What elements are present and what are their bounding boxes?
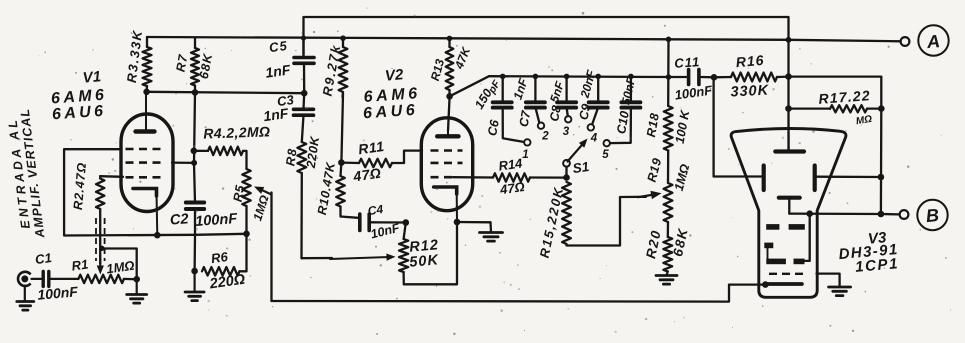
wire C6 top lead xyxy=(502,76,504,100)
wire V1 suppressor to R2 top xyxy=(100,175,123,178)
wire C10 top lead xyxy=(630,77,632,101)
wire C9 top lead xyxy=(597,76,599,100)
resistor R7 xyxy=(191,48,199,86)
wire screen grid line xyxy=(172,161,194,164)
resistor R17 xyxy=(830,105,867,112)
wire V1 grid loop xyxy=(64,149,246,235)
connector input jack xyxy=(18,272,31,286)
svg-text:2: 2 xyxy=(541,131,549,143)
ground R20 xyxy=(656,276,677,285)
wire R1 ground stem xyxy=(136,279,138,294)
wire gun electrode lead xyxy=(805,214,810,261)
node right plate to B riser xyxy=(878,174,885,181)
resistor R13 xyxy=(446,47,454,90)
CRT right deflection plate xyxy=(813,166,817,191)
wire jack stem xyxy=(24,286,26,301)
wire right riser to B xyxy=(880,109,883,214)
svg-text:R4.2,2MΩ: R4.2,2MΩ xyxy=(203,123,271,141)
ground R1 xyxy=(127,295,147,304)
wire rail to R18 xyxy=(667,39,670,106)
wire top outer rail xyxy=(304,17,789,55)
wire C7 top lead xyxy=(534,76,536,100)
wire C4 to R12 top xyxy=(371,221,406,223)
wire R5 wiper riser to bottom rail xyxy=(270,193,272,302)
potentiometer R12 xyxy=(399,239,408,272)
wire R18 to R19 xyxy=(667,151,670,184)
resistor R20 xyxy=(663,237,672,272)
wire cathode to ground xyxy=(457,221,491,224)
wire CRT neck dashes to ground xyxy=(817,274,840,287)
wire C3 top lead xyxy=(302,93,305,109)
CRT grid dashes in neck xyxy=(769,273,805,275)
node rail at R18 column xyxy=(666,37,672,43)
wire R15 bottom to R19 wiper xyxy=(567,197,647,246)
wire vertical through R16-R17 nodes xyxy=(787,40,789,151)
svg-text:B: B xyxy=(925,205,940,226)
node cap rail at C6 xyxy=(500,74,506,80)
svg-text:V1: V1 xyxy=(82,68,102,87)
wire B line xyxy=(789,212,899,215)
svg-text:C4: C4 xyxy=(367,202,384,218)
node R6 left xyxy=(191,268,198,275)
tube V1 plate xyxy=(136,129,155,133)
node R5 bottom xyxy=(243,231,250,238)
wire C2 to cathode line xyxy=(194,209,196,235)
wire R7 top lead xyxy=(194,38,196,49)
tube V2 grid g2 xyxy=(431,162,463,165)
node S1 junction xyxy=(563,174,570,181)
node cap rail at C10 xyxy=(628,74,634,80)
node rail at R13 xyxy=(447,36,453,42)
potentiometer R5 xyxy=(242,169,250,206)
CRT lower plate xyxy=(779,196,800,200)
svg-text:R5: R5 xyxy=(231,183,248,203)
resistor R14 xyxy=(493,173,530,181)
svg-text:A: A xyxy=(925,31,941,52)
wire R20 ground stem xyxy=(667,272,668,276)
CRT gun electrode small xyxy=(764,243,773,249)
terminal B post xyxy=(900,210,909,219)
wire R10 to C4 xyxy=(341,207,359,218)
capacitor C10 xyxy=(621,102,640,107)
wire R3 top lead xyxy=(146,37,148,47)
tube V2 grid g3 xyxy=(431,176,454,179)
CRT gun electrode row2 left xyxy=(766,259,786,265)
resistor R8 xyxy=(297,142,306,173)
node screen grid junction xyxy=(191,160,197,166)
resistor R11 xyxy=(359,159,392,167)
wire V2 cathode lead xyxy=(456,192,458,222)
wire C3-R8 lead xyxy=(302,115,304,142)
node outer rail joins A rail xyxy=(786,37,792,43)
node B junction xyxy=(878,211,885,218)
node C11-R16-plate junction xyxy=(711,74,718,81)
switch contact 2 xyxy=(538,123,544,129)
capacitor C4 xyxy=(360,214,369,230)
wire lower plate lead to B line xyxy=(788,199,790,214)
wire R7 column down to screen grid xyxy=(194,92,195,163)
tube V1 envelope xyxy=(121,114,173,212)
wire C11 left lead xyxy=(669,76,687,78)
wire R11 to V2 grid xyxy=(392,151,422,163)
resistor R18 xyxy=(664,106,673,151)
terminal B circle xyxy=(917,200,947,230)
wire R16 left lead xyxy=(714,76,731,79)
svg-text:V2: V2 xyxy=(384,66,404,85)
resistor R9 xyxy=(339,47,348,92)
wire C9 to contact 4 xyxy=(592,107,598,124)
svg-text:C11: C11 xyxy=(674,54,701,71)
wire left plate lead to C11 node xyxy=(714,77,762,176)
tube V2 plate xyxy=(437,134,458,138)
wire R7 bottom lead xyxy=(194,86,196,93)
node cap rail meets R18 column xyxy=(666,74,672,80)
wire C7 to contact 2 xyxy=(535,107,539,122)
svg-text:C1: C1 xyxy=(34,250,53,267)
node cathode line junction xyxy=(154,232,161,239)
svg-text:R6: R6 xyxy=(210,249,229,266)
resistor R16 xyxy=(731,73,777,82)
ground R6 column xyxy=(185,292,204,301)
svg-text:3: 3 xyxy=(563,126,570,138)
wire R9 to grid node xyxy=(341,94,343,163)
wiper arrow of R1 xyxy=(97,255,104,275)
wire R17 right lead xyxy=(867,107,881,109)
wire C5 to node xyxy=(303,63,306,93)
CRT top deflection plate xyxy=(775,149,804,153)
wire R10 top lead xyxy=(339,163,342,176)
ground V2 cathode xyxy=(480,233,503,242)
node cathode bar left xyxy=(762,281,769,288)
tube V2 grid g1 xyxy=(431,149,463,152)
wire R4 right to R5 top xyxy=(243,151,247,169)
terminal A circle xyxy=(918,25,948,55)
wire V1 plate lead xyxy=(145,92,147,130)
CRT gun electrode row2 right xyxy=(794,259,805,265)
node rail at R9 xyxy=(340,35,346,41)
wire C11 right lead xyxy=(701,76,714,79)
wire R9 top lead xyxy=(342,38,344,47)
wire V1 cathode lead down xyxy=(156,193,159,235)
wire R16 right lead xyxy=(777,75,789,78)
wire jack to C1 xyxy=(32,278,42,280)
CRT left deflection plate xyxy=(762,166,766,191)
node R13 bottom / V2 plate xyxy=(446,93,453,100)
resistor R2 xyxy=(96,179,104,210)
capacitor C7 xyxy=(526,102,545,107)
capacitor C9 xyxy=(589,102,608,107)
tube V1 cathode xyxy=(133,189,157,197)
wire top plate lead xyxy=(788,110,790,150)
wire C10 to contact 5 xyxy=(611,107,631,143)
wire C8 to contact 3 xyxy=(567,107,568,116)
switch S1 arm xyxy=(568,139,588,162)
potentiometer R1 xyxy=(78,275,124,283)
capacitor C1 xyxy=(43,271,49,286)
wire C1 to R1 xyxy=(51,278,79,280)
wire R1 right up and to cable xyxy=(102,249,137,280)
CRT gun electrode row1 left xyxy=(766,224,779,230)
shield dashes of input cable xyxy=(96,218,105,261)
wire R5 bottom lead xyxy=(245,206,247,234)
node V2 cathode junction xyxy=(454,219,461,226)
capacitor C3 xyxy=(294,109,314,115)
node R17 left xyxy=(785,105,792,112)
resistor R3 xyxy=(143,47,152,86)
node R1 right xyxy=(133,276,140,283)
switch S1 pivot xyxy=(563,160,570,167)
svg-text:5: 5 xyxy=(602,149,609,161)
wire R13 node diagonal to cap rail xyxy=(450,76,489,96)
wire R9 bottom lead xyxy=(341,92,344,97)
wire V2 g3 to R14 xyxy=(453,176,493,179)
node cap rail at C8 xyxy=(564,74,570,80)
wire R2 top corner xyxy=(99,176,101,178)
wire R6 ground stem xyxy=(194,271,196,292)
node R7 bottom xyxy=(192,89,199,96)
terminal A post xyxy=(901,37,910,46)
resistor R10 xyxy=(336,176,345,207)
wire R12 top lead xyxy=(404,223,406,240)
wiper arrow of R19 xyxy=(638,191,662,199)
node cable shield tie xyxy=(99,246,104,251)
capacitor C11 xyxy=(689,70,699,85)
wire gun small electrode lead xyxy=(767,248,769,259)
capacitor C8 xyxy=(557,102,576,107)
node gun lead junction xyxy=(806,210,813,217)
wire R12 bottom loop to V2 cathode xyxy=(404,222,457,284)
wire R14 to S1 node xyxy=(530,176,567,178)
svg-text:C2: C2 xyxy=(169,211,189,228)
svg-text:C8: C8 xyxy=(547,104,564,122)
svg-text:R16: R16 xyxy=(735,52,765,70)
wire main HT rail to terminal A xyxy=(147,37,900,41)
wiper arrow of R5 xyxy=(254,187,272,195)
wire capacitor bank rail xyxy=(489,75,669,78)
svg-text:S1: S1 xyxy=(572,159,590,176)
ground CRT xyxy=(829,287,851,296)
tube V2 cathode xyxy=(434,187,457,194)
wire R13 top lead xyxy=(448,38,450,47)
svg-text:4: 4 xyxy=(590,133,598,145)
tube V1 grid g3 xyxy=(126,176,164,179)
wire V2 ground stem xyxy=(489,222,492,232)
wire C8 top lead xyxy=(565,76,567,100)
node R16 right junction xyxy=(785,73,792,80)
node C4-R12 junction xyxy=(403,219,410,226)
svg-text:330K: 330K xyxy=(730,82,770,100)
CRT V3 envelope xyxy=(731,128,846,297)
CRT cathode bar xyxy=(765,282,802,286)
svg-text:C5: C5 xyxy=(268,38,289,55)
wire R1 right to ground node xyxy=(124,278,137,281)
wire R17 left lead xyxy=(789,107,831,109)
wire S1 pivot to R14 node xyxy=(565,167,567,178)
wire cable conductor to R1 wiper xyxy=(99,209,101,264)
tube V1 grid g2 xyxy=(126,161,164,164)
wire R19 to R20 xyxy=(667,222,670,237)
CRT gun electrode row1 right xyxy=(789,224,805,230)
svg-text:R8: R8 xyxy=(283,147,299,167)
node cap rail at C9 xyxy=(595,74,601,80)
capacitor C2 xyxy=(186,203,204,210)
capacitor C5 xyxy=(294,58,314,64)
switch contact 1 xyxy=(524,139,530,145)
wire V2 plate lead xyxy=(448,96,450,131)
wiper arrow of R12 xyxy=(330,254,396,261)
node R9-R10-R11 junction xyxy=(338,159,345,166)
wire R4 left lead xyxy=(194,150,208,152)
svg-text:50K: 50K xyxy=(409,252,440,271)
node rail at C5 column xyxy=(301,35,306,40)
wire cathode line down to R6 node xyxy=(193,235,196,271)
tube V2 envelope xyxy=(421,118,472,211)
wire C5 top lead xyxy=(302,38,304,58)
potentiometer R19 xyxy=(664,183,673,222)
resistor R15 xyxy=(562,182,571,244)
wire R11 left lead xyxy=(341,161,359,164)
wire V2 plate inner lead xyxy=(447,131,449,136)
wire R3 bottom lead xyxy=(145,86,148,92)
wire C6 to contact 1 xyxy=(503,107,524,142)
switch contact 3 xyxy=(565,116,571,122)
resistor R4 xyxy=(208,147,243,155)
wire R13 bottom lead xyxy=(448,90,450,96)
wire CRT cathode out to bottom rail xyxy=(272,285,766,302)
wire V1 plate rail to C5-C3 node xyxy=(147,92,305,93)
wire R16 node to right riser xyxy=(789,77,882,109)
svg-text:100nF: 100nF xyxy=(195,211,239,230)
switch contact 5 xyxy=(604,140,610,146)
node R3 bottom / V1 plate xyxy=(143,89,150,96)
wire R12 wiper line xyxy=(302,257,333,260)
tube V1 grid g1 xyxy=(126,148,164,151)
wire R6 right riser to R5 bottom xyxy=(240,234,247,271)
wire screen column to C2 xyxy=(194,163,195,202)
capacitor C6 xyxy=(493,102,512,107)
switch contact 4 xyxy=(588,124,594,130)
svg-text:R1: R1 xyxy=(71,256,90,273)
node R17 right xyxy=(878,105,885,112)
wire R8 bottom to R12 wiper line xyxy=(300,173,303,258)
node C5-C3 junction xyxy=(301,90,308,97)
node cap rail at C7 xyxy=(533,74,539,80)
ground input jack xyxy=(17,302,34,311)
node R4 left junction xyxy=(191,148,198,155)
resistor R6 xyxy=(202,267,240,275)
svg-text:1: 1 xyxy=(522,149,528,161)
wire right plate lead xyxy=(817,176,881,179)
